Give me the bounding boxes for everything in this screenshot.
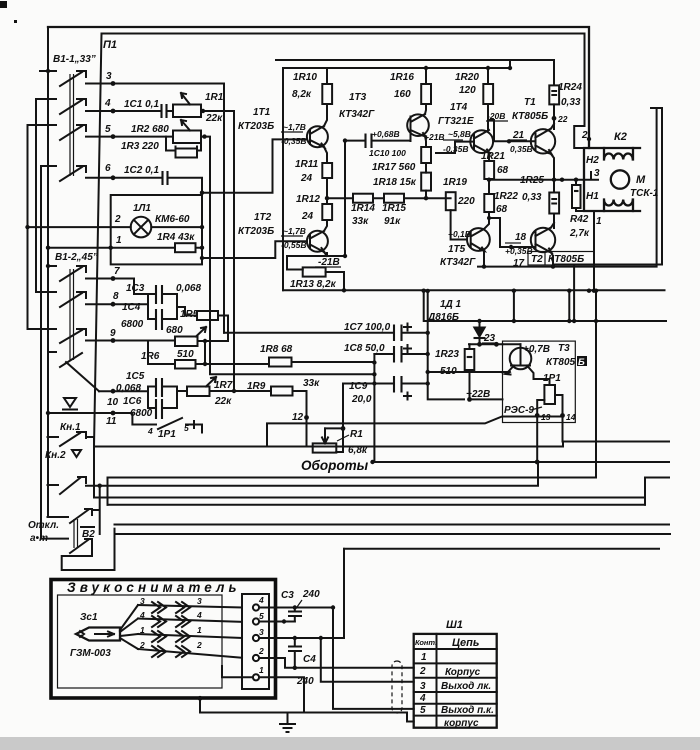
svg-text:~5,8В: ~5,8В bbox=[448, 129, 471, 139]
wire T4 emitter bbox=[488, 153, 490, 161]
svg-text:1С3: 1С3 bbox=[126, 283, 145, 294]
wire 13 down to bus B2 bbox=[536, 416, 538, 463]
pin 2 bbox=[253, 655, 259, 661]
turntable chassis symbol bbox=[63, 398, 77, 410]
svg-text:Корпус: Корпус bbox=[445, 667, 481, 678]
switch В1-2 pole 2 bbox=[36, 292, 86, 307]
inductor Н2 winding bbox=[604, 148, 633, 160]
svg-text:Зс1: Зс1 bbox=[80, 612, 98, 623]
wire stage left edge bbox=[282, 68, 284, 290]
svg-text:2: 2 bbox=[196, 640, 202, 650]
svg-text:Откл.: Откл. bbox=[28, 520, 59, 531]
wire row 9 bbox=[86, 340, 175, 342]
svg-text:В1-1„33”: В1-1„33” bbox=[53, 54, 96, 65]
svg-text:1R4 43к: 1R4 43к bbox=[157, 232, 195, 243]
wire T2 emitter to -21В rail bbox=[287, 252, 345, 270]
wire bus B2 bbox=[373, 461, 670, 463]
wire left bus v48 lower bbox=[47, 71, 49, 517]
box lamp cell bbox=[111, 195, 202, 264]
wire С10 base line bbox=[345, 140, 409, 142]
resistor 1R19 bbox=[446, 192, 456, 210]
wire выход лк row bbox=[321, 638, 414, 682]
svg-text:1: 1 bbox=[259, 665, 264, 675]
svg-text:С3: С3 bbox=[281, 590, 294, 601]
wire v513 bbox=[513, 291, 515, 321]
wire С9 row bbox=[343, 383, 428, 385]
svg-text:Выход п.к.: Выход п.к. bbox=[441, 705, 494, 716]
wire pin3 out bbox=[259, 637, 344, 639]
wire Т3 collector down to relay bbox=[534, 379, 550, 385]
svg-text:Цепь: Цепь bbox=[452, 637, 479, 649]
svg-text:11: 11 bbox=[106, 416, 117, 427]
wire T2 collector bbox=[324, 220, 327, 231]
svg-text:120: 120 bbox=[459, 85, 476, 96]
wire 1R4 row bbox=[48, 247, 202, 249]
svg-text:1: 1 bbox=[116, 235, 122, 246]
svg-text:ГЗМ-003: ГЗМ-003 bbox=[70, 648, 111, 659]
wire lamp row bbox=[28, 226, 203, 228]
capacitor 1С8 bbox=[394, 346, 402, 363]
wire С9 feed from R1 bbox=[342, 384, 344, 421]
svg-text:1R3 220: 1R3 220 bbox=[121, 141, 159, 152]
transistor Т1 КТ805Б bbox=[531, 129, 555, 153]
wire Кн.1 to bus bbox=[93, 437, 95, 498]
wire 1R24 to node 22 bbox=[553, 104, 555, 129]
resistor 1R16 bbox=[421, 84, 431, 104]
wire T2 collector bbox=[551, 223, 554, 228]
svg-text:Кн.2: Кн.2 bbox=[45, 450, 66, 461]
svg-text:1Т3: 1Т3 bbox=[349, 92, 367, 103]
svg-text:1Р1: 1Р1 bbox=[543, 373, 561, 384]
wire right bracket bbox=[553, 108, 662, 265]
wire T2 base bbox=[511, 246, 536, 248]
svg-text:1Т1: 1Т1 bbox=[253, 107, 271, 118]
transistor Т3 КТ805Б regulator bbox=[510, 348, 532, 370]
wire B5/B6 staircase to right bbox=[645, 478, 669, 505]
svg-text:КТ805: КТ805 bbox=[546, 357, 576, 368]
svg-text:1С4: 1С4 bbox=[122, 302, 141, 313]
svg-text:1Т2: 1Т2 bbox=[254, 212, 272, 223]
svg-text:-0,35В: -0,35В bbox=[281, 136, 307, 146]
wire 1R22 to T5 collector bbox=[484, 212, 489, 229]
wire В2 return bbox=[62, 529, 115, 570]
transistor 1Т1 КТ203Б bbox=[307, 126, 328, 147]
svg-text:Н2: Н2 bbox=[586, 155, 599, 166]
svg-text:0,35В: 0,35В bbox=[510, 144, 533, 154]
capacitor loop С5/С6 bbox=[148, 387, 177, 409]
box РЭС-9 relay assembly bbox=[503, 341, 576, 422]
resistor 1R25 bbox=[549, 193, 559, 214]
svg-text:1R20: 1R20 bbox=[455, 72, 479, 83]
wire row 11 bbox=[48, 413, 150, 425]
capacitor 1С7 bbox=[394, 325, 402, 342]
wire T4 base stub bbox=[436, 142, 474, 153]
wire caps rail down to B2 bbox=[373, 384, 375, 463]
svg-text:91к: 91к bbox=[384, 216, 401, 227]
svg-text:1R15: 1R15 bbox=[382, 203, 406, 214]
svg-text:3: 3 bbox=[420, 681, 426, 692]
svg-text:1R14: 1R14 bbox=[351, 203, 375, 214]
connector block bbox=[242, 594, 269, 689]
switch В1-1 pole 1 bbox=[40, 71, 86, 86]
switch В1-1 pole 3 bbox=[28, 125, 87, 140]
wire T3 collector bbox=[425, 104, 426, 114]
switch В2 section 1 bbox=[48, 509, 93, 523]
svg-text:3: 3 bbox=[594, 168, 600, 179]
svg-text:1Т4: 1Т4 bbox=[450, 102, 468, 113]
wire 1R21 to row 1R25 bbox=[488, 179, 490, 194]
resistor 1R10 bbox=[322, 84, 332, 104]
switch В1-2 pole 4 bbox=[48, 352, 99, 391]
svg-text:510: 510 bbox=[177, 349, 194, 360]
wire left bus v27 bbox=[27, 125, 29, 329]
svg-text:12: 12 bbox=[292, 412, 304, 423]
svg-text:Обороты: Обороты bbox=[301, 458, 369, 473]
switch В2 section 2 bbox=[42, 539, 92, 553]
svg-text:2: 2 bbox=[419, 666, 426, 677]
svg-text:КТ805Б: КТ805Б bbox=[512, 111, 548, 122]
wire v569 bbox=[568, 291, 570, 321]
wire relay contact row bbox=[267, 417, 563, 447]
svg-text:33к: 33к bbox=[303, 378, 320, 389]
svg-text:1R1: 1R1 bbox=[205, 92, 224, 103]
wire top supply line outer bbox=[48, 27, 589, 148]
svg-text:Конт.: Конт. bbox=[415, 638, 437, 647]
wire chev row 2 bbox=[138, 619, 242, 622]
svg-text:-0,55В: -0,55В bbox=[281, 240, 307, 250]
svg-text:0,33: 0,33 bbox=[522, 192, 542, 203]
relay coil 1Р1 bbox=[544, 385, 555, 404]
svg-text:1R6: 1R6 bbox=[141, 351, 160, 362]
svg-text:КМ6-60: КМ6-60 bbox=[155, 214, 190, 225]
wire left bus v35 bbox=[35, 99, 37, 292]
svg-text:1Л1: 1Л1 bbox=[133, 203, 151, 214]
node Кн.2 junction bbox=[98, 484, 102, 488]
wire 1R19 to T5 base bbox=[451, 210, 467, 239]
node 2 junction dot on motor feed bbox=[587, 137, 591, 141]
wire bus lower y524.5 bbox=[115, 524, 670, 526]
svg-text:24: 24 bbox=[300, 173, 313, 184]
svg-text:5: 5 bbox=[184, 423, 189, 433]
svg-text:Н1: Н1 bbox=[586, 191, 599, 202]
wire 1R20 to T4 bbox=[487, 104, 489, 130]
pin 4 bbox=[253, 604, 259, 610]
wire box bottom to ground rail bbox=[200, 698, 414, 721]
svg-text:1: 1 bbox=[197, 625, 202, 635]
resistor 1R9 bbox=[271, 387, 293, 396]
svg-text:4: 4 bbox=[104, 98, 111, 109]
transistor Т2 КТ805Б bbox=[531, 228, 555, 252]
svg-text:1R22: 1R22 bbox=[494, 191, 518, 202]
wire выход пк row bbox=[333, 608, 414, 709]
potentiometer 1R1 bbox=[173, 105, 201, 118]
svg-text:РЭС-9: РЭС-9 bbox=[504, 405, 534, 416]
wire stage rail top y68 bbox=[283, 67, 510, 69]
capacitor 1С10 bbox=[366, 134, 372, 149]
switch В2 mechanical link bbox=[74, 519, 78, 548]
wire T1 collector bbox=[324, 104, 327, 126]
capacitor loop С3/С4 bbox=[148, 294, 177, 319]
svg-text:1Р1: 1Р1 bbox=[158, 429, 176, 440]
svg-text:Т2: Т2 bbox=[531, 254, 543, 265]
svg-text:-21В: -21В bbox=[318, 257, 340, 268]
svg-text:2: 2 bbox=[114, 214, 121, 225]
svg-text:1С7 100,0: 1С7 100,0 bbox=[344, 322, 391, 333]
capacitor 1С4 bbox=[156, 309, 162, 330]
svg-text:8,2к: 8,2к bbox=[292, 89, 312, 100]
svg-text:160: 160 bbox=[394, 89, 411, 100]
svg-text:1С5: 1С5 bbox=[126, 371, 145, 382]
wire v574 bbox=[573, 265, 575, 322]
svg-text:К2: К2 bbox=[614, 131, 627, 143]
wire v596 down bbox=[595, 291, 597, 477]
svg-text:Ш1: Ш1 bbox=[446, 619, 463, 631]
wire chev row 1 bbox=[138, 605, 242, 608]
svg-text:14: 14 bbox=[566, 412, 576, 422]
box П1 bottom edge / relay return wire bbox=[94, 446, 563, 448]
wire row 7 bbox=[86, 279, 148, 295]
wire row 1R25 bbox=[489, 179, 584, 181]
wire +22В node bbox=[428, 371, 507, 373]
wire T1 collector bbox=[551, 124, 554, 129]
svg-text:1R2 680: 1R2 680 bbox=[131, 124, 169, 135]
svg-text:20,0: 20,0 bbox=[351, 394, 372, 405]
svg-text:ГТ321Е: ГТ321Е bbox=[438, 116, 474, 127]
svg-text:4: 4 bbox=[147, 426, 153, 436]
resistor 1R22 bbox=[484, 194, 494, 212]
cartridge ГЗМ-003 bbox=[76, 628, 120, 641]
wire 1R7 out bbox=[210, 390, 272, 392]
wire coil bottom right to 14 bbox=[555, 395, 563, 416]
wire T5 collector to T2 base bbox=[489, 218, 525, 247]
wire T1 base bbox=[488, 120, 536, 141]
wire chev row 4 bbox=[138, 649, 253, 677]
wire row4 drop bbox=[233, 111, 235, 391]
svg-text:Выход лк.: Выход лк. bbox=[441, 681, 491, 692]
wire pot to junction bbox=[198, 341, 229, 362]
svg-text:С4: С4 bbox=[303, 654, 316, 665]
wire caps left vertical bbox=[373, 354, 375, 384]
wire pickup leads bbox=[120, 605, 138, 649]
svg-text:1R24: 1R24 bbox=[558, 82, 582, 93]
wire bus B6 bbox=[108, 504, 646, 506]
svg-text:1R18 15к: 1R18 15к bbox=[373, 177, 417, 188]
wire row 6 out to box bbox=[168, 178, 203, 195]
svg-text:1С2 0,1: 1С2 0,1 bbox=[124, 165, 159, 176]
svg-text:24: 24 bbox=[301, 211, 314, 222]
resistor R42 bbox=[572, 185, 581, 208]
wire pin4 out bbox=[259, 607, 333, 609]
resistor 1R18 bbox=[421, 173, 431, 191]
svg-text:1R11: 1R11 bbox=[295, 159, 319, 170]
svg-text:1R7: 1R7 bbox=[214, 380, 233, 391]
capacitor С4 bbox=[294, 638, 296, 646]
transistor 1Т5 КТ342Г bbox=[467, 228, 490, 251]
wire 14 down to bus B1 bbox=[562, 416, 565, 447]
svg-text:3: 3 bbox=[106, 71, 112, 82]
box П1 left edge bbox=[94, 34, 102, 447]
svg-text:3: 3 bbox=[197, 596, 202, 606]
wire pin2 корпус row bbox=[259, 658, 414, 668]
svg-text:6800: 6800 bbox=[121, 319, 144, 330]
wire bus lower y534 bbox=[115, 533, 671, 535]
wire feedback V345 bbox=[344, 141, 346, 256]
wire left bus v48 bbox=[47, 27, 49, 71]
shield screen symbol bbox=[392, 661, 402, 713]
svg-text:220: 220 bbox=[457, 196, 475, 207]
svg-text:13: 13 bbox=[541, 412, 551, 422]
svg-text:0,33: 0,33 bbox=[561, 97, 581, 108]
svg-text:КТ342Г: КТ342Г bbox=[339, 109, 375, 120]
resistor 1R3 parallel bbox=[166, 137, 201, 155]
resistor 1R15 bbox=[384, 194, 404, 203]
wire pin1 to shield bbox=[259, 677, 304, 698]
transistor 1Т2 КТ203Б bbox=[307, 231, 328, 252]
svg-text:1: 1 bbox=[596, 216, 602, 227]
svg-text:1R13 8,2к: 1R13 8,2к bbox=[290, 279, 337, 290]
svg-text:22к: 22к bbox=[205, 113, 223, 124]
svg-text:КТ203Б: КТ203Б bbox=[238, 226, 274, 237]
wire Кн.2 down to В2 bbox=[92, 486, 100, 534]
wire pin1 drop bbox=[303, 698, 305, 712]
capacitor 1С6 bbox=[156, 399, 162, 419]
svg-text:4: 4 bbox=[196, 610, 202, 620]
wire С8 row bbox=[374, 353, 427, 355]
wire +22В to box bbox=[470, 398, 503, 400]
svg-text:9: 9 bbox=[110, 328, 116, 339]
wire T5 emitter bbox=[483, 251, 485, 267]
wire bus y548.8 bbox=[344, 548, 659, 550]
resistor 1R23 bbox=[465, 349, 475, 370]
wire С1 to pot bbox=[167, 110, 174, 112]
wire base feed T2 bbox=[202, 241, 307, 258]
resistor 1R4 bbox=[175, 243, 196, 252]
svg-text:корпус: корпус bbox=[444, 718, 479, 729]
switch Кн.2 bbox=[48, 477, 100, 494]
wire chev row 3 bbox=[138, 634, 242, 638]
svg-text:R1: R1 bbox=[350, 429, 363, 440]
svg-text:1Д 1: 1Д 1 bbox=[440, 299, 462, 310]
wire row 6 bbox=[86, 177, 161, 179]
pin 3 bbox=[253, 635, 259, 641]
wire bus B1 bbox=[563, 441, 670, 443]
svg-text:1С10 100: 1С10 100 bbox=[369, 148, 406, 158]
svg-text:680: 680 bbox=[166, 325, 183, 336]
resistor 1R12 bbox=[322, 204, 332, 220]
contact 1Р1 bbox=[150, 418, 202, 433]
resistor 1R24 bbox=[549, 85, 559, 104]
svg-text:+22В: +22В bbox=[466, 389, 490, 400]
node 13 bbox=[535, 413, 540, 418]
svg-text:1R19: 1R19 bbox=[443, 177, 467, 188]
wire T1 emitter bbox=[551, 154, 554, 180]
wire row 4 bbox=[86, 110, 160, 112]
svg-text:1Т5: 1Т5 bbox=[448, 244, 466, 255]
wire row 198 to 1R14 bbox=[327, 197, 353, 199]
svg-text:1R10: 1R10 bbox=[293, 72, 317, 83]
potentiometer 1R7 bbox=[187, 387, 210, 397]
resistor 1R20 bbox=[483, 84, 493, 104]
pin 5 bbox=[253, 618, 259, 624]
ground symbol bbox=[287, 713, 289, 724]
svg-text:7: 7 bbox=[114, 266, 120, 277]
svg-text:1R23: 1R23 bbox=[435, 349, 459, 360]
wire node 23 bbox=[469, 343, 503, 345]
svg-text:Т3: Т3 bbox=[558, 343, 570, 354]
capacitor 1С5 bbox=[156, 378, 162, 397]
transistor 1Т3 КТ342Г bbox=[407, 114, 429, 136]
wire row 1R8 bbox=[196, 362, 375, 364]
svg-text:~1,7В: ~1,7В bbox=[283, 122, 306, 132]
switch В1-2 pole 1 bbox=[48, 266, 86, 281]
box Звукосниматель outer bbox=[51, 580, 276, 699]
svg-text:21: 21 bbox=[512, 130, 525, 141]
svg-text:6800: 6800 bbox=[130, 408, 153, 419]
potentiometer 680 bbox=[175, 337, 198, 347]
svg-text:8: 8 bbox=[113, 291, 119, 302]
svg-text:2: 2 bbox=[258, 646, 264, 656]
wire coil bottom left to 13 bbox=[537, 400, 544, 416]
motor М circle bbox=[611, 170, 629, 188]
svg-text:0,068: 0,068 bbox=[116, 383, 141, 394]
svg-text:1R9: 1R9 bbox=[247, 381, 266, 392]
wire 1R9 out bbox=[293, 391, 313, 447]
svg-text:2: 2 bbox=[581, 130, 588, 141]
svg-text:Б: Б bbox=[578, 357, 585, 368]
svg-text:5: 5 bbox=[259, 611, 264, 621]
svg-text:КТ203Б: КТ203Б bbox=[238, 121, 274, 132]
inductor Н1 winding bbox=[604, 200, 633, 212]
svg-text:1R8 68: 1R8 68 bbox=[260, 344, 293, 355]
resistor 1R8 bbox=[269, 358, 292, 367]
svg-text:1R12: 1R12 bbox=[296, 194, 320, 205]
potentiometer 1R2 bbox=[173, 131, 201, 144]
svg-text:10: 10 bbox=[107, 397, 119, 408]
box labels Т2 КТ805Б row bbox=[528, 252, 594, 266]
svg-text:1С6: 1С6 bbox=[123, 396, 142, 407]
wire T2 emitter bbox=[551, 253, 553, 267]
svg-text:5: 5 bbox=[105, 124, 111, 135]
wire row 4 out bbox=[201, 110, 233, 112]
resistor 1R6 bbox=[175, 360, 196, 369]
wire pin5 out bbox=[259, 621, 295, 623]
wire bus B5 bbox=[94, 497, 645, 499]
svg-text:68: 68 bbox=[496, 204, 508, 215]
resistor 1R5 bbox=[197, 311, 218, 320]
wire bus321 bbox=[424, 291, 666, 321]
switch Кн.1 bbox=[48, 432, 95, 446]
resistor 1R11 bbox=[322, 163, 332, 178]
svg-text:6: 6 bbox=[105, 163, 111, 174]
svg-text:+0,68В: +0,68В bbox=[372, 129, 400, 139]
wire rail y60 bbox=[276, 60, 554, 85]
svg-text:6,8к: 6,8к bbox=[348, 445, 368, 456]
node 14 bbox=[560, 413, 565, 418]
wire top line inner / П1 box top bbox=[102, 34, 585, 149]
resistor 1R14 bbox=[353, 194, 373, 203]
capacitor 1С1 bbox=[162, 104, 167, 118]
capacitor 1С3 bbox=[156, 285, 162, 304]
wire Т3 collector from node23 bbox=[503, 343, 521, 345]
resistor 1R13 bbox=[287, 270, 344, 291]
svg-text:22к: 22к bbox=[214, 396, 232, 407]
wire row 8 bbox=[86, 303, 148, 305]
wire caps right rail bbox=[428, 291, 464, 399]
svg-text:ТСК-1: ТСК-1 bbox=[630, 188, 659, 199]
wire bus B4 bbox=[100, 462, 538, 486]
wire motor 3 stub bbox=[584, 172, 598, 180]
wire base feed T1 bbox=[202, 139, 307, 192]
